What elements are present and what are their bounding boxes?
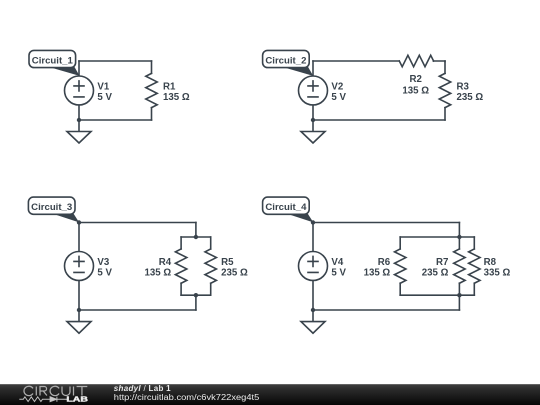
voltage source V3 [65, 252, 94, 281]
svg-text:R5: R5 [221, 257, 234, 268]
R7 value label [422, 257, 449, 278]
wire [78, 223, 80, 252]
node (junction) [194, 235, 198, 239]
V4 value label [331, 257, 346, 278]
svg-text:135 Ω: 135 Ω [364, 268, 391, 279]
label Circuit_3 [28, 197, 79, 222]
svg-text:V1: V1 [97, 82, 109, 93]
svg-text:R6: R6 [378, 257, 391, 268]
svg-text:LAB: LAB [66, 395, 88, 404]
svg-text:135 Ω: 135 Ω [163, 92, 190, 103]
wire (bottom rail) [181, 294, 211, 296]
svg-text:R2: R2 [410, 74, 422, 85]
svg-text:Circuit_3: Circuit_3 [31, 202, 72, 213]
wire [312, 61, 314, 76]
wire [312, 105, 314, 120]
svg-text:R8: R8 [484, 257, 497, 268]
svg-text:Circuit_2: Circuit_2 [265, 55, 306, 66]
svg-text:http://circuitlab.com/c6vk722x: http://circuitlab.com/c6vk722xeg4t5 [114, 393, 260, 402]
svg-text:R4: R4 [159, 257, 172, 268]
resistor R7 [454, 237, 465, 295]
svg-text:135 Ω: 135 Ω [144, 268, 171, 279]
label Circuit_1 [29, 50, 80, 76]
svg-text:5 V: 5 V [331, 268, 346, 279]
svg-text:235 Ω: 235 Ω [422, 268, 449, 279]
R6 value label [364, 257, 391, 278]
resistor R6 [395, 237, 406, 295]
svg-text:shadyl / Lab 1: shadyl / Lab 1 [114, 384, 171, 393]
node (junction) [77, 220, 81, 224]
ground [301, 120, 325, 143]
svg-text:235 Ω: 235 Ω [457, 92, 484, 103]
wire [312, 223, 314, 252]
svg-text:R1: R1 [163, 82, 176, 93]
R1 value label [163, 82, 190, 103]
voltage source V2 [299, 76, 328, 105]
resistor R2 [399, 55, 433, 66]
svg-text:V2: V2 [331, 82, 343, 93]
svg-text:5 V: 5 V [331, 92, 346, 103]
wire [79, 222, 196, 224]
svg-text:5 V: 5 V [97, 268, 112, 279]
label Circuit_4 [263, 197, 314, 222]
node (junction) [311, 220, 315, 224]
svg-text:V4: V4 [331, 257, 343, 268]
V1 value label [97, 82, 112, 103]
ground [301, 310, 325, 333]
wire (top rail) [400, 236, 474, 238]
wire [458, 223, 460, 238]
svg-text:Circuit_4: Circuit_4 [265, 202, 307, 213]
R4 value label [144, 257, 171, 278]
svg-text:Circuit_1: Circuit_1 [32, 55, 74, 66]
footer bar [0, 384, 540, 405]
wire [79, 309, 196, 311]
wire [313, 60, 399, 62]
resistor R3 [439, 61, 450, 120]
voltage source V1 [65, 76, 94, 105]
wire [79, 60, 152, 62]
wire [458, 295, 460, 310]
ground [67, 310, 91, 333]
node (junction) [77, 118, 81, 122]
R3 value label [457, 82, 484, 103]
wire [313, 309, 459, 311]
logo resistor squiggle and diode [19, 397, 67, 402]
wire [312, 281, 314, 311]
wire [78, 281, 80, 311]
svg-text:V3: V3 [97, 257, 109, 268]
node (junction) [457, 293, 461, 297]
resistor R5 [205, 237, 216, 295]
wire (bottom rail) [400, 294, 474, 296]
wire [78, 61, 80, 76]
R2 value label [402, 74, 429, 96]
V3 value label [97, 257, 112, 278]
wire [78, 105, 80, 120]
node (junction) [77, 308, 81, 312]
voltage source V4 [299, 252, 328, 281]
wire [433, 60, 445, 63]
svg-text:335 Ω: 335 Ω [484, 268, 511, 279]
CircuitLab logo wordmark CIRCUIT [24, 386, 87, 395]
resistor R1 [146, 61, 157, 120]
wire (top rail) [181, 236, 211, 238]
svg-text:235 Ω: 235 Ω [221, 268, 248, 279]
resistor R8 [469, 237, 480, 295]
svg-text:135 Ω: 135 Ω [402, 85, 429, 96]
wire [195, 295, 197, 310]
node (junction) [457, 235, 461, 239]
R8 value label [484, 257, 511, 278]
R5 value label [221, 257, 248, 278]
V2 value label [331, 82, 346, 103]
node (junction) [311, 308, 315, 312]
svg-text:R7: R7 [436, 257, 448, 268]
svg-text:5 V: 5 V [97, 92, 112, 103]
node (junction) [194, 293, 198, 297]
wire [195, 223, 197, 238]
label Circuit_2 [263, 50, 314, 76]
wire [313, 222, 459, 224]
wire [79, 119, 152, 121]
svg-text:R3: R3 [457, 82, 470, 93]
wire [313, 119, 445, 121]
ground [67, 120, 91, 143]
node (junction) [311, 118, 315, 122]
resistor R4 [175, 237, 186, 295]
